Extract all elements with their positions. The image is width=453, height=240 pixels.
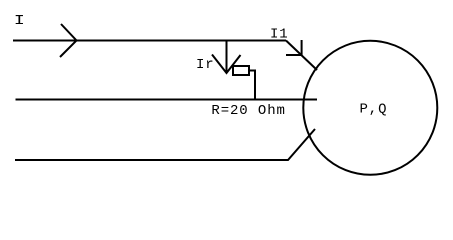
resistor R (rectangle body) bbox=[233, 66, 249, 75]
svg-text:P,Q: P,Q bbox=[360, 102, 388, 118]
arrowhead for current I1 on diagonal wire bbox=[286, 40, 302, 55]
wire: vertical branch from top line to resistor bbox=[226, 41, 228, 74]
svg-text:Ir: Ir bbox=[196, 57, 215, 73]
machine/load circle P,Q bbox=[303, 41, 437, 175]
svg-text:R=20 Ohm: R=20 Ohm bbox=[211, 103, 285, 119]
wire: from resistor right terminal down to middle line bbox=[249, 71, 255, 101]
wire: diagonal from top line into machine circle bbox=[286, 41, 317, 71]
arrowhead for current I on top wire bbox=[60, 24, 77, 57]
wire: bottom feeder line with diagonal into circle bbox=[15, 129, 315, 160]
wire: top feeder line (current I) bbox=[13, 40, 286, 42]
svg-text:I: I bbox=[14, 12, 26, 28]
arrowhead for current Ir on branch bbox=[212, 55, 241, 74]
svg-text:I1: I1 bbox=[270, 27, 289, 43]
wire: middle feeder line into circle bbox=[16, 99, 318, 101]
